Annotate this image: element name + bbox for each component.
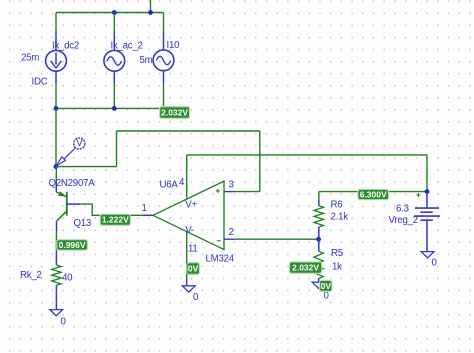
label Vreg_2 [389, 215, 418, 226]
label 2.1k [331, 212, 349, 223]
wire sense vertical [116, 131, 118, 167]
current source Ik_ac_2 [104, 50, 125, 71]
label 1k [332, 261, 342, 272]
label U6A [160, 180, 179, 191]
resistor R6 [314, 192, 323, 252]
wire pin3 horizontal [224, 191, 260, 193]
wire power rail [187, 154, 427, 156]
label R6 [331, 200, 343, 211]
label Q2N2907A [49, 178, 96, 189]
node bottom junction 1 [54, 106, 59, 111]
svg-text:IDC: IDC [32, 77, 48, 88]
label V+ [185, 200, 197, 211]
label Ik_dc2 [52, 41, 79, 52]
svg-text:Q13: Q13 [74, 218, 92, 229]
label LM324 [206, 253, 235, 264]
wire source1 top lead [55, 13, 57, 51]
svg-text:0.996V: 0.996V [59, 240, 86, 250]
wire top feed vertical [150, 0, 152, 13]
bias label 0V opamp [187, 263, 200, 275]
node top junction 2 [148, 10, 153, 15]
wire left vertical to transistor node [55, 108, 57, 166]
label pin1 [142, 203, 147, 214]
svg-text:Ik_dc2: Ik_dc2 [52, 41, 79, 52]
svg-text:1: 1 [142, 203, 147, 214]
svg-text:I10: I10 [167, 40, 181, 51]
svg-text:2.032V: 2.032V [161, 108, 188, 118]
node transistor top junction [54, 164, 59, 169]
wire feedback [235, 238, 319, 240]
svg-text:0: 0 [324, 291, 330, 302]
ground R5 [312, 282, 329, 301]
ground battery [421, 252, 437, 269]
svg-text:5m: 5m [140, 55, 153, 66]
svg-text:R6: R6 [331, 200, 343, 211]
wire pin11 [186, 231, 188, 286]
ground Rk_2 [50, 310, 67, 328]
label I10 [167, 40, 181, 51]
bias label 0.996V [57, 240, 88, 251]
svg-text:Ik_ac_2: Ik_ac_2 [111, 41, 143, 52]
svg-text:Rk_2: Rk_2 [20, 270, 42, 281]
wire power rail drop [426, 155, 428, 192]
bias label 0V R5 [320, 280, 332, 291]
svg-text:Vreg_2: Vreg_2 [389, 215, 418, 226]
svg-text:6.300V: 6.300V [360, 189, 387, 199]
svg-text:2.1k: 2.1k [331, 212, 349, 223]
wire sense top horizontal [117, 130, 260, 132]
transistor Q2N2907A [56, 167, 80, 221]
bias label 6.300V [358, 189, 389, 199]
wire sense horizontal [56, 166, 117, 168]
wire source1 bottom lead [55, 71, 57, 108]
node bottom junction 2 [112, 106, 117, 111]
svg-text:3: 3 [229, 180, 234, 191]
wire base to opamp [81, 204, 146, 215]
label R5 [331, 248, 343, 259]
label V- [185, 225, 194, 236]
label 25m [21, 53, 39, 64]
label pin4 [179, 177, 185, 188]
wire collector lead [55, 221, 57, 265]
bias label 1.222V [100, 214, 130, 225]
wire source2 bottom lead [113, 71, 115, 108]
svg-text:0V: 0V [188, 263, 199, 273]
node battery junction [425, 189, 430, 194]
label pin11 [188, 243, 198, 254]
svg-text:V+: V+ [185, 200, 197, 211]
svg-text:6.3: 6.3 [396, 203, 409, 214]
resistor R5 [314, 251, 323, 282]
label pin3 [229, 180, 234, 191]
svg-text:0V: 0V [321, 281, 332, 291]
op-amp U6A [143, 181, 235, 250]
label Q13 [74, 218, 92, 229]
svg-text:R5: R5 [331, 248, 343, 259]
svg-text:Q2N2907A: Q2N2907A [49, 178, 96, 189]
svg-text:11: 11 [188, 243, 198, 254]
bias label 2.032V top [160, 107, 190, 119]
svg-text:2.032V: 2.032V [292, 263, 319, 273]
label Rk_2 [20, 270, 42, 281]
svg-text:25m: 25m [21, 53, 39, 64]
label 5m [140, 55, 153, 66]
current source Ik_dc2 [46, 50, 67, 71]
current source I10 [153, 50, 174, 71]
svg-text:1.222V: 1.222V [102, 215, 129, 225]
label pin2 [229, 227, 234, 238]
wire top rail [56, 12, 164, 14]
battery Vreg_2 [414, 192, 440, 252]
svg-text:0: 0 [193, 292, 199, 303]
bias label 2.032V bottom [290, 262, 322, 273]
wire source2 top lead [113, 13, 115, 51]
wire pin3 vertical [259, 131, 261, 192]
resistor Rk_2 [52, 265, 61, 310]
wire bottom rail [56, 107, 164, 109]
label 40 [62, 273, 73, 284]
svg-text:4: 4 [179, 177, 185, 188]
wire source3 top lead [163, 13, 165, 51]
svg-text:0: 0 [61, 317, 67, 328]
voltage probe V [56, 138, 85, 166]
svg-text:1k: 1k [332, 261, 342, 272]
svg-text:LM324: LM324 [206, 253, 235, 264]
node top junction 1 [112, 10, 117, 15]
svg-text:40: 40 [62, 273, 73, 284]
svg-text:U6A: U6A [160, 180, 179, 191]
wire source3 bottom lead [163, 71, 165, 109]
ground opamp [182, 286, 199, 303]
label Ik_ac_2 [111, 41, 143, 52]
svg-text:0: 0 [432, 257, 438, 268]
label 6.3 [396, 203, 409, 214]
svg-text:V: V [76, 138, 83, 149]
node feedback junction [316, 237, 321, 242]
wire pin4 [186, 155, 188, 199]
label IDC [32, 77, 48, 88]
svg-text:2: 2 [229, 227, 234, 238]
wire 6.3V net [319, 191, 427, 193]
